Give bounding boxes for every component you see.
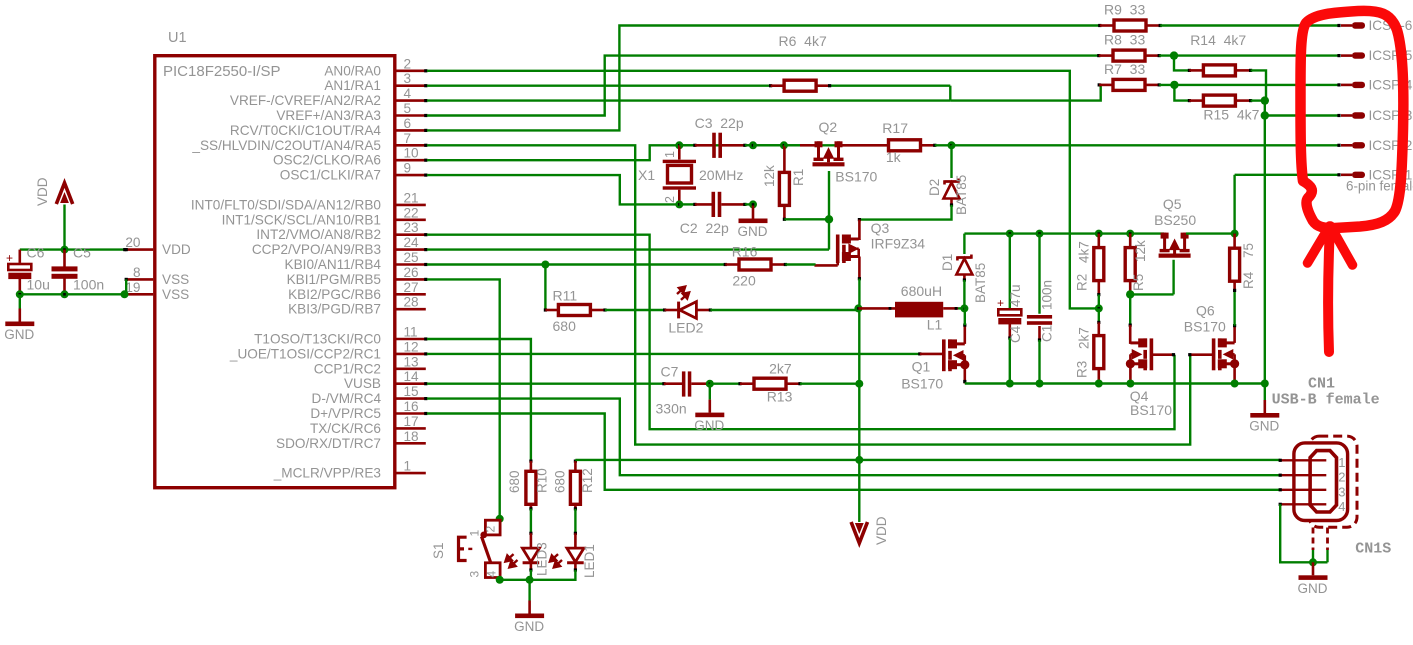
transistor Q2 BS170 bbox=[813, 141, 845, 164]
svg-text:C5: C5 bbox=[73, 245, 91, 261]
wire Q2 gate lead down bbox=[828, 171, 830, 219]
wire shield 1 down bbox=[1312, 550, 1314, 562]
svg-text:VDD: VDD bbox=[162, 242, 191, 257]
wire pin10 OSC2 jog to oscillator row bbox=[427, 145, 841, 160]
svg-text:Q1: Q1 bbox=[912, 359, 931, 375]
ground GND CN1 bbox=[1312, 562, 1315, 575]
svg-text:Q2: Q2 bbox=[819, 119, 838, 135]
wire ICSP-1 to VPP node bbox=[1233, 175, 1235, 234]
svg-text:4: 4 bbox=[404, 86, 412, 101]
svg-text:BS170: BS170 bbox=[1184, 319, 1226, 335]
svg-text:R9 33: R9 33 bbox=[1104, 2, 1145, 18]
svg-text:7: 7 bbox=[404, 131, 412, 146]
wire VDD column bbox=[858, 308, 860, 460]
wire D2 to Q3 drain bbox=[859, 205, 951, 220]
wire branch to R14 bbox=[1174, 56, 1189, 71]
resistor R11 680 bbox=[558, 305, 590, 316]
capacitor C6 bbox=[18, 250, 21, 263]
junction R2 top bbox=[1095, 230, 1103, 238]
wire R10 to LED3 bbox=[530, 509, 532, 534]
svg-text:3: 3 bbox=[468, 571, 482, 578]
U1 pin 7 _SS/HLVDIN/C2OUT/AN4/RA5 bbox=[397, 144, 426, 147]
wire pin12 to Q1 gate bbox=[427, 353, 920, 355]
svg-text:VSS: VSS bbox=[162, 287, 189, 302]
wire pin23 to Q4 gate bbox=[427, 235, 1175, 430]
junction L1 right / D1 / Q1 drain bbox=[960, 304, 968, 312]
wire to GND bbox=[528, 580, 530, 601]
wire pin26 to S1 bbox=[427, 279, 500, 518]
U1 pin 3 AN1/RA1 bbox=[397, 84, 426, 87]
connector pin ICSP-1 bbox=[1337, 173, 1340, 176]
wire R7 to ICSP-4 bbox=[1159, 84, 1339, 86]
junction R8 / R14 branch bbox=[1170, 51, 1178, 59]
svg-text:VREF-/CVREF/AN2/RA2: VREF-/CVREF/AN2/RA2 bbox=[230, 93, 381, 108]
junction R14/R15 outputs bbox=[1261, 96, 1269, 104]
wire pulldown column bbox=[1264, 101, 1266, 116]
svg-text:4k7: 4k7 bbox=[1076, 241, 1091, 263]
wire S1 to LED3 cathode bbox=[500, 579, 530, 581]
svg-text:VREF+/AN3/RA3: VREF+/AN3/RA3 bbox=[276, 108, 381, 123]
resistor R15 4k7 bbox=[1203, 95, 1235, 106]
resistor R12 680 bbox=[570, 471, 580, 504]
svg-text:1k: 1k bbox=[886, 149, 902, 165]
svg-text:17: 17 bbox=[404, 414, 419, 429]
transistor Q6 BS170 bbox=[1214, 338, 1235, 370]
capacitor C3 bbox=[679, 144, 695, 146]
capacitor C5 bbox=[63, 250, 66, 268]
CN1 pin 3 bbox=[1280, 489, 1326, 491]
wire R9 to ICSP-6 bbox=[1160, 24, 1339, 26]
wire VBUS row R12/VDD/CN1 pin1 bbox=[575, 459, 1280, 461]
svg-text:R1: R1 bbox=[791, 169, 806, 186]
svg-text:TX/CK/RC6: TX/CK/RC6 bbox=[310, 421, 381, 436]
svg-text:R5: R5 bbox=[1131, 274, 1146, 291]
connector pin ICSP-5 bbox=[1337, 54, 1340, 57]
svg-text:5: 5 bbox=[404, 101, 412, 116]
svg-text:INT0/FLT0/SDI/SDA/AN12/RB0: INT0/FLT0/SDI/SDA/AN12/RB0 bbox=[191, 197, 382, 212]
capacitor C1 100n bbox=[1038, 234, 1040, 314]
junction R1 top bbox=[780, 141, 788, 149]
LED LED1 bbox=[574, 533, 577, 548]
U1 pin 6 RCV/T0CKI/C1OUT/RA4 bbox=[397, 129, 426, 132]
svg-text:C1: C1 bbox=[1039, 325, 1054, 342]
junction S1 pin2 bbox=[496, 515, 504, 523]
svg-text:BAT85: BAT85 bbox=[973, 263, 988, 303]
svg-text:CN1: CN1 bbox=[1308, 376, 1335, 393]
svg-text:D2: D2 bbox=[927, 179, 942, 196]
junction Q4 source / ground rail bbox=[1126, 380, 1134, 388]
svg-text:75: 75 bbox=[1241, 243, 1256, 258]
svg-text:47u: 47u bbox=[1008, 284, 1023, 307]
wire boost rail top bbox=[964, 232, 1164, 234]
svg-text:VSS: VSS bbox=[162, 272, 189, 287]
capacitor C2 bbox=[695, 203, 712, 206]
wire VDD stem bbox=[63, 205, 65, 250]
resistor R10 680 chain bbox=[529, 460, 532, 463]
junction S1 pin4 bbox=[496, 576, 504, 584]
junction R5 top bbox=[1126, 230, 1134, 238]
svg-text:VDD: VDD bbox=[35, 177, 50, 206]
U1 pin 14 VUSB bbox=[397, 382, 426, 385]
svg-text:AN1/RA1: AN1/RA1 bbox=[324, 78, 381, 93]
wire ICSP-2 line bbox=[952, 144, 1340, 146]
wire pin5 RA3 to R8 bbox=[427, 56, 1099, 116]
svg-text:23: 23 bbox=[404, 220, 419, 235]
junction R3 bottom bbox=[1095, 380, 1103, 388]
wire LED1 to GND node bbox=[530, 570, 576, 580]
wire branch to R15 bbox=[1174, 85, 1189, 101]
U1 pin 12 _UOE/T1OSI/CCP2/RC1 bbox=[397, 353, 426, 356]
svg-text:R4: R4 bbox=[1241, 271, 1256, 289]
svg-text:2: 2 bbox=[404, 56, 412, 71]
wire R6 output drop bbox=[949, 86, 951, 101]
resistor R1 12k bbox=[779, 172, 789, 205]
resistor R14 4k7 bbox=[1203, 65, 1235, 76]
svg-text:28: 28 bbox=[404, 295, 419, 310]
LED LED3 bbox=[530, 533, 533, 548]
U1 pin 15 D-/VM/RC4 bbox=[397, 397, 426, 400]
svg-text:GND: GND bbox=[694, 418, 724, 433]
svg-text:220: 220 bbox=[732, 273, 756, 289]
svg-text:1: 1 bbox=[663, 151, 677, 158]
transistor Q1 BS170 wires bbox=[918, 352, 921, 355]
resistor R5 12k bbox=[1125, 248, 1135, 281]
wire GND rail to pin 19 bbox=[20, 293, 126, 295]
CN1 shield pins bbox=[1312, 528, 1315, 551]
U1 pin 2 AN0/RA0 bbox=[397, 70, 426, 73]
wire R6 to corner bbox=[830, 84, 951, 86]
svg-text:_SS/HLVDIN/C2OUT/AN4/RA5: _SS/HLVDIN/C2OUT/AN4/RA5 bbox=[191, 138, 381, 153]
svg-text:D-/VM/RC4: D-/VM/RC4 bbox=[312, 391, 382, 406]
svg-text:18: 18 bbox=[404, 429, 419, 444]
svg-text:KBI1/PGM/RB5: KBI1/PGM/RB5 bbox=[287, 272, 381, 287]
wire pin8 to pin19 bbox=[125, 279, 127, 294]
wire pin25 row to R16 bbox=[427, 263, 725, 265]
wire R4 bottom to Q6 drain bbox=[1233, 290, 1235, 325]
svg-text:KBI0/AN11/RB4: KBI0/AN11/RB4 bbox=[285, 257, 382, 272]
wire R17 to D2 node bbox=[935, 144, 952, 146]
svg-text:Q3: Q3 bbox=[871, 220, 890, 236]
resistor R10 680 bbox=[526, 471, 536, 504]
svg-text:D1: D1 bbox=[940, 254, 955, 271]
svg-text:GND: GND bbox=[514, 619, 544, 634]
svg-text:11: 11 bbox=[404, 325, 418, 340]
wire ground rail bottom bbox=[965, 382, 1265, 384]
svg-text:9: 9 bbox=[404, 161, 412, 176]
CN1 pin 4 bbox=[1280, 503, 1326, 505]
svg-text:680uH: 680uH bbox=[901, 283, 942, 299]
wire pin9 OSC1 to crystal pin2 bbox=[427, 175, 679, 204]
U1 pin 9 OSC1/CLKI/RA7 bbox=[397, 174, 426, 177]
wire down to R11 bbox=[544, 265, 546, 311]
U1 pin 22 INT1/SCK/SCL/AN10/RB1 bbox=[397, 219, 426, 222]
svg-text:KBI2/PGC/RB6: KBI2/PGC/RB6 bbox=[288, 287, 381, 302]
svg-text:12k: 12k bbox=[762, 165, 777, 187]
svg-text:OSC1/CLKI/RA7: OSC1/CLKI/RA7 bbox=[280, 168, 381, 183]
LED LED2 bbox=[665, 309, 678, 312]
wire pin6 RA4 to R9 bbox=[427, 26, 1100, 131]
junction C6 bottom bbox=[16, 290, 24, 298]
inductor L1 680uH bbox=[858, 307, 895, 310]
svg-text:1: 1 bbox=[1338, 455, 1345, 470]
power flag VDD bottom bbox=[851, 522, 867, 543]
svg-text:BS170: BS170 bbox=[1130, 402, 1172, 418]
diode D2 BAT85 bbox=[944, 179, 960, 199]
junction R11 pickoff pin25 bbox=[541, 261, 549, 269]
U1 pin 5 VREF+/AN3/RA3 bbox=[397, 114, 426, 117]
svg-text:3: 3 bbox=[1338, 484, 1345, 499]
svg-text:C7: C7 bbox=[661, 364, 679, 380]
resistor R17 1k bbox=[889, 140, 921, 151]
wire to GND right bbox=[1264, 384, 1266, 401]
svg-text:SDO/RX/DT/RC7: SDO/RX/DT/RC7 bbox=[276, 436, 381, 451]
junction Q2 gate / R1 / pin24 bbox=[825, 215, 833, 223]
connector pin ICSP-4 bbox=[1337, 83, 1340, 86]
transistor Q1 BS170 bbox=[944, 339, 965, 371]
junction C7 / R13 / GND bbox=[706, 380, 714, 388]
svg-text:R14 4k7: R14 4k7 bbox=[1190, 32, 1246, 48]
junction C2 right / GND node bbox=[749, 200, 757, 208]
resistor R2 4k7 bbox=[1094, 248, 1104, 281]
svg-text:IRF9Z34: IRF9Z34 bbox=[871, 236, 926, 252]
svg-text:INT1/SCK/SCL/AN10/RB1: INT1/SCK/SCL/AN10/RB1 bbox=[222, 212, 381, 227]
wire Q4 gate lead bbox=[1151, 353, 1173, 356]
wire to R7 input bbox=[950, 85, 1100, 101]
resistor R13 2k7 bbox=[754, 378, 786, 389]
svg-text:AN0/RA0: AN0/RA0 bbox=[324, 63, 381, 78]
wire pin4 RA2 toward R7 bbox=[427, 99, 950, 101]
svg-text:D+/VP/RC5: D+/VP/RC5 bbox=[310, 406, 381, 421]
U1 pin 16 D+/VP/RC5 bbox=[397, 412, 426, 415]
svg-text:12k: 12k bbox=[1133, 240, 1148, 262]
svg-text:20: 20 bbox=[125, 235, 141, 250]
wire pulldown column to ground rail bbox=[1264, 116, 1266, 384]
svg-text:R8 33: R8 33 bbox=[1104, 32, 1145, 48]
power flag VDD top-left bbox=[56, 183, 72, 204]
crystal X1 bbox=[678, 145, 681, 159]
U1 pin 13 CCP1/RC2 bbox=[397, 367, 426, 370]
svg-text:C3 22p: C3 22p bbox=[695, 115, 744, 131]
wire R13 to VDD column bbox=[800, 383, 859, 385]
svg-text:22: 22 bbox=[404, 205, 419, 220]
wire C2 row bbox=[679, 203, 695, 205]
junction C4 top bbox=[1006, 230, 1014, 238]
wire R16 to Q3 gate bbox=[814, 264, 837, 267]
junction R7 / R15 branch bbox=[1170, 81, 1178, 89]
junction VPP node Q5/R4/ICSP-1 bbox=[1231, 230, 1239, 238]
diode D1 BAT85 bbox=[956, 255, 972, 275]
junction VDD / VBUS row bbox=[855, 456, 863, 464]
svg-text:2k7: 2k7 bbox=[769, 361, 792, 377]
junction R5 bottom / Q5 gate / Q4 drain bbox=[1126, 290, 1134, 298]
wire Q4 drain column bbox=[1129, 294, 1131, 325]
svg-text:_MCLR/VPP/RE3: _MCLR/VPP/RE3 bbox=[273, 466, 381, 481]
wire VDD column to arrow bbox=[858, 460, 860, 522]
svg-text:100n: 100n bbox=[1039, 280, 1054, 310]
resistor R6 4k7 bbox=[784, 80, 816, 91]
junction C1 top bbox=[1036, 230, 1044, 238]
U1 pin 20 VDD bbox=[126, 248, 153, 251]
svg-text:GND: GND bbox=[4, 327, 34, 342]
U1 pin 4 VREF-/CVREF/AN2/RA2 bbox=[397, 99, 426, 102]
resistor R9 33 bbox=[1114, 20, 1146, 31]
junction R13 / VDD column bbox=[855, 380, 863, 388]
junction D2 top / ICSP-2 line bbox=[948, 141, 956, 149]
svg-text:R16: R16 bbox=[732, 244, 758, 260]
junction ICSP-3 tap bbox=[1261, 111, 1269, 119]
svg-text:21: 21 bbox=[404, 190, 419, 205]
node VDD/C5/C6 bbox=[61, 246, 69, 254]
svg-text:6: 6 bbox=[404, 116, 412, 131]
wire R11 to LED2 bbox=[605, 309, 665, 311]
svg-text:RCV/T0CKI/C1OUT/RA4: RCV/T0CKI/C1OUT/RA4 bbox=[230, 123, 382, 138]
U1 pin 8 VSS bbox=[126, 278, 153, 281]
junction ground rail / pulldown column bbox=[1261, 380, 1269, 388]
svg-text:BAT85: BAT85 bbox=[954, 175, 969, 215]
wire down to pin24 row bbox=[828, 219, 830, 249]
svg-text:U1: U1 bbox=[168, 30, 187, 46]
svg-text:Q5: Q5 bbox=[1163, 196, 1182, 212]
switch S1 bbox=[485, 520, 500, 535]
svg-text:CCP1/RC2: CCP1/RC2 bbox=[314, 361, 381, 376]
svg-text:PIC18F2550-I/SP: PIC18F2550-I/SP bbox=[163, 63, 281, 80]
svg-text:14: 14 bbox=[404, 369, 420, 384]
svg-text:15: 15 bbox=[404, 384, 419, 399]
junction shield GND bbox=[1309, 558, 1317, 566]
IC U1 PIC18F2550 body bbox=[155, 56, 395, 488]
resistor R7 33 bbox=[1113, 79, 1145, 90]
annotation red circle around ICSP connector bbox=[1300, 11, 1403, 228]
wire CN1 pin4 to shield GND bbox=[1280, 504, 1327, 562]
svg-text:CCP2/VPO/AN9/RB3: CCP2/VPO/AN9/RB3 bbox=[252, 242, 381, 257]
svg-text:R2: R2 bbox=[1074, 274, 1089, 291]
wire pin24 CCP2 row bbox=[427, 248, 829, 250]
U1 pin 21 INT0/FLT0/SDI/SDA/AN12/RB0 bbox=[397, 204, 426, 207]
wire Q2 to R17 bbox=[840, 144, 888, 147]
svg-text:LED1: LED1 bbox=[582, 544, 597, 578]
svg-text:1: 1 bbox=[404, 459, 412, 474]
wire shield 2 down bbox=[1326, 550, 1328, 562]
junction C4 bottom bbox=[1006, 380, 1014, 388]
wire C7 node to GND bbox=[709, 384, 711, 400]
U1 pin 10 OSC2/CLKO/RA6 bbox=[397, 159, 426, 162]
U1 pin 17 TX/CK/RC6 bbox=[397, 427, 426, 430]
svg-text:INT2/VMO/AN8/RB2: INT2/VMO/AN8/RB2 bbox=[256, 227, 381, 242]
transistor Q3 IRF9Z34 bbox=[838, 235, 859, 264]
annotation red arrow bbox=[1328, 227, 1330, 352]
svg-text:10: 10 bbox=[404, 146, 420, 161]
svg-text:T1OSO/T13CKI/RC0: T1OSO/T13CKI/RC0 bbox=[254, 332, 381, 347]
svg-text:VDD: VDD bbox=[874, 516, 889, 545]
CN1 pin 2 bbox=[1280, 474, 1326, 476]
junction pin19 bbox=[121, 290, 129, 298]
svg-text:16: 16 bbox=[404, 399, 419, 414]
svg-text:25: 25 bbox=[404, 250, 419, 265]
resistor R16 220 bbox=[739, 259, 771, 270]
wire LED2 to VDD node bbox=[710, 309, 858, 311]
svg-text:C4: C4 bbox=[1008, 325, 1023, 343]
transistor Q4 BS170 bbox=[1130, 338, 1151, 370]
svg-text:LED2: LED2 bbox=[668, 320, 703, 336]
wire R16 out bbox=[785, 263, 814, 266]
svg-text:27: 27 bbox=[404, 280, 419, 295]
junction L1 left / VDD node bbox=[854, 304, 862, 312]
svg-text:X1: X1 bbox=[638, 167, 655, 183]
svg-text:3: 3 bbox=[404, 71, 412, 86]
wire C6 to GND bbox=[19, 294, 21, 308]
svg-text:C6: C6 bbox=[27, 245, 45, 261]
svg-text:4: 4 bbox=[485, 571, 499, 578]
svg-text:2: 2 bbox=[663, 196, 677, 203]
svg-text:1: 1 bbox=[468, 530, 482, 537]
svg-text:13: 13 bbox=[404, 354, 419, 369]
svg-text:_UOE/T1OSI/CCP2/RC1: _UOE/T1OSI/CCP2/RC1 bbox=[229, 346, 381, 361]
svg-text:680: 680 bbox=[507, 470, 522, 493]
svg-text:S1: S1 bbox=[431, 542, 446, 559]
svg-text:R13: R13 bbox=[767, 389, 793, 405]
svg-text:GND: GND bbox=[1298, 581, 1328, 596]
U1 pin 18 SDO/RX/DT/RC7 bbox=[397, 442, 426, 445]
wire pin16 D+ to CN1 pin3 bbox=[427, 414, 1280, 490]
svg-text:R15 4k7: R15 4k7 bbox=[1203, 107, 1259, 123]
svg-text:R3: R3 bbox=[1074, 361, 1089, 378]
junction C5 bottom bbox=[61, 290, 69, 298]
wire Q3 source down bbox=[858, 279, 860, 309]
ground GND under C7 bbox=[708, 400, 711, 413]
U1 pin 27 KBI2/PGC/RB6 bbox=[397, 293, 426, 296]
wire pin14 VUSB to C7 bbox=[427, 383, 664, 385]
resistor R4 75 bbox=[1230, 248, 1240, 281]
U1 pin 25 KBI0/AN11/RB4 bbox=[397, 263, 426, 266]
svg-text:BS170: BS170 bbox=[901, 376, 943, 392]
ground GND crystal bbox=[752, 206, 755, 219]
svg-text:GND: GND bbox=[738, 224, 768, 239]
svg-text:R10: R10 bbox=[535, 468, 550, 493]
wire pin15 D- to CN1 pin2 bbox=[427, 399, 1280, 476]
svg-text:VUSB: VUSB bbox=[344, 376, 381, 391]
wire R12 to LED1 bbox=[574, 509, 576, 534]
svg-text:C2 22p: C2 22p bbox=[680, 220, 729, 236]
resistor R8 33 bbox=[1113, 50, 1145, 61]
junction LED3 / S1 / GND bbox=[526, 576, 534, 584]
svg-text:R11: R11 bbox=[553, 288, 578, 304]
wire D1 to boost rail bbox=[963, 234, 965, 254]
junction X1 pin2 bbox=[675, 200, 683, 208]
wire Q5 gate lead bbox=[1172, 260, 1174, 295]
svg-text:10u: 10u bbox=[27, 277, 50, 293]
svg-text:R12: R12 bbox=[580, 468, 595, 493]
svg-text:12: 12 bbox=[404, 339, 419, 354]
U1 pin 26 KBI1/PGM/RB5 bbox=[397, 278, 426, 281]
svg-text:24: 24 bbox=[404, 235, 420, 250]
ground GND top-left bbox=[18, 309, 21, 322]
svg-text:+: + bbox=[997, 296, 1004, 310]
junction C3 right bbox=[749, 141, 757, 149]
wire Q5 drain to VPP node bbox=[1186, 232, 1235, 234]
wire R14 output down bbox=[1251, 70, 1266, 100]
wire VDD rail to pin 20 bbox=[20, 248, 126, 250]
wire C3 to R1 top bbox=[753, 144, 784, 146]
transistor Q5 BS250 bbox=[1159, 233, 1191, 256]
svg-text:2: 2 bbox=[484, 526, 498, 533]
svg-text:330n: 330n bbox=[656, 401, 687, 417]
wire ICSP-1 row bbox=[1235, 174, 1339, 176]
U1 pin 23 INT2/VMO/AN8/RB2 bbox=[397, 233, 426, 236]
wire R8 to ICSP-5 bbox=[1159, 54, 1339, 56]
svg-text:26: 26 bbox=[404, 265, 419, 280]
svg-text:20MHz: 20MHz bbox=[699, 167, 743, 183]
svg-text:100n: 100n bbox=[73, 277, 104, 293]
